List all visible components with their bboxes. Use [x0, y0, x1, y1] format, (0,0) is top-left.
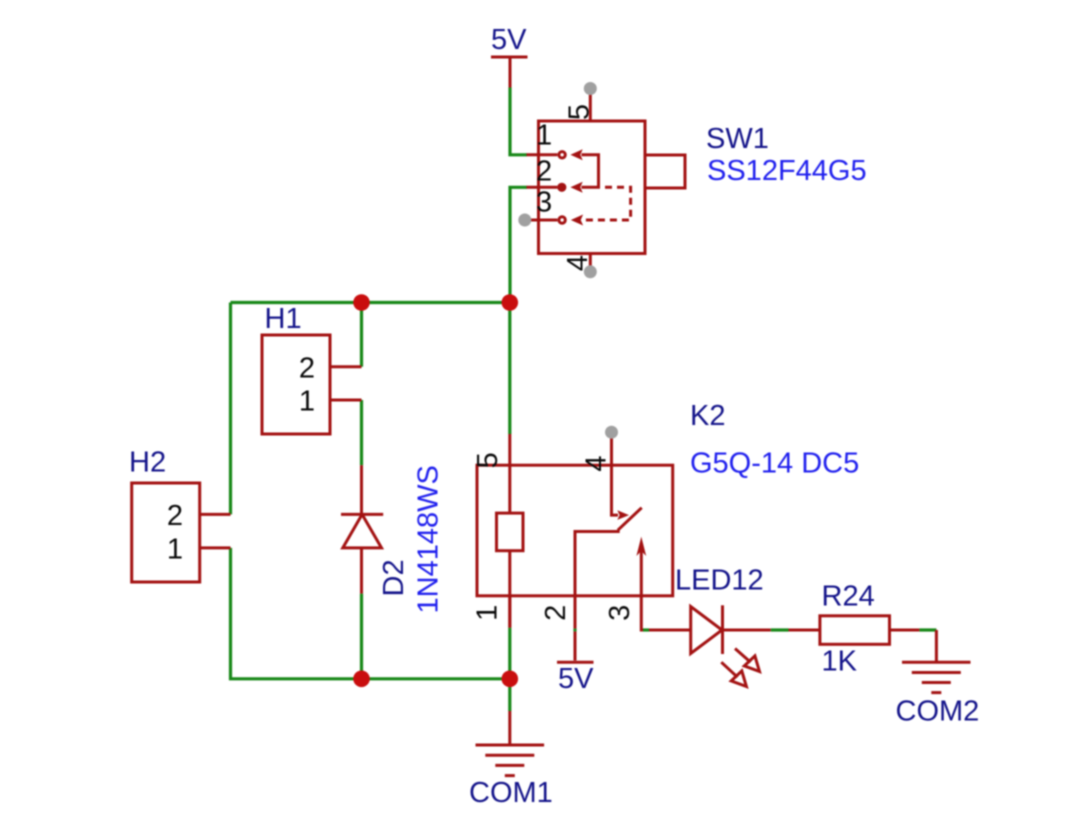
svg-text:H1: H1: [265, 303, 302, 335]
svg-text:2: 2: [536, 156, 552, 188]
svg-text:3: 3: [604, 605, 636, 621]
svg-text:D2: D2: [378, 559, 410, 596]
svg-text:LED12: LED12: [675, 565, 764, 597]
svg-text:2: 2: [167, 500, 183, 532]
svg-text:SS12F44G5: SS12F44G5: [707, 155, 867, 187]
svg-text:1N4148WS: 1N4148WS: [413, 465, 445, 613]
svg-text:5: 5: [563, 104, 595, 120]
svg-text:G5Q-14 DC5: G5Q-14 DC5: [690, 447, 859, 479]
svg-text:R24: R24: [822, 581, 875, 613]
svg-text:COM2: COM2: [896, 695, 980, 727]
svg-text:1: 1: [299, 386, 315, 418]
svg-text:3: 3: [536, 187, 552, 219]
svg-text:H2: H2: [129, 446, 166, 478]
svg-text:K2: K2: [690, 400, 725, 432]
svg-text:COM1: COM1: [469, 777, 553, 809]
svg-text:2: 2: [540, 605, 572, 621]
svg-text:1K: 1K: [822, 646, 858, 678]
svg-text:SW1: SW1: [706, 123, 769, 155]
svg-text:5V: 5V: [491, 24, 527, 56]
svg-text:5: 5: [472, 452, 504, 468]
svg-text:4: 4: [581, 456, 613, 472]
svg-text:4: 4: [562, 255, 594, 271]
svg-text:1: 1: [472, 605, 504, 621]
svg-text:2: 2: [299, 352, 315, 384]
svg-text:1: 1: [536, 120, 552, 152]
svg-text:1: 1: [167, 534, 183, 566]
svg-text:5V: 5V: [558, 663, 594, 695]
